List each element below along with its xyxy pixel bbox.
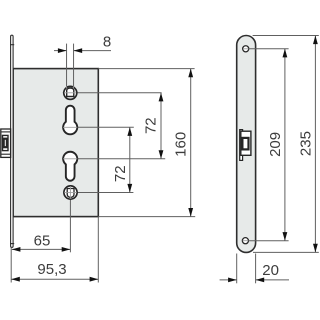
extension line plate bottom bbox=[253, 251, 319, 253]
dim 235 arrow bottom bbox=[313, 244, 318, 253]
center line follower bbox=[63, 92, 162, 94]
dim 235 arrow top bbox=[313, 36, 318, 45]
faceplate strip tick top bbox=[10, 44, 14, 46]
svg-text:65: 65 bbox=[34, 233, 51, 250]
dim 8 line right segment bbox=[74, 50, 111, 52]
dim 72 lower arrow top bbox=[127, 127, 132, 136]
extension line 20 left bbox=[236, 254, 238, 284]
dim 8 arrow right bbox=[74, 48, 83, 53]
dim 65 arrow right bbox=[62, 247, 71, 252]
dim 8 arrow left bbox=[58, 48, 67, 53]
faceplate edge-on strip bbox=[11, 35, 14, 247]
dim 95,3 line bbox=[11, 278, 98, 280]
follower square hole bbox=[67, 88, 74, 96]
dim 72 lower arrow bottom bbox=[127, 184, 132, 193]
dim 72 upper arrow bottom bbox=[159, 150, 164, 159]
center line bottom hub bbox=[64, 192, 133, 194]
extension line screw top bbox=[249, 48, 289, 50]
svg-text:72: 72 bbox=[142, 117, 159, 134]
extension line faceplate down bbox=[10, 248, 12, 283]
keyhole lower (euro profile, circle up) bbox=[63, 152, 77, 181]
dim 20 line left segment bbox=[220, 279, 237, 281]
striking plate (front view) bbox=[237, 36, 256, 253]
dim 95,3 arrow right bbox=[90, 277, 99, 282]
center line keyhole upper bbox=[62, 126, 134, 128]
faint chord follower horizontal bbox=[63, 86, 77, 199]
dim 72 upper arrow top bbox=[159, 93, 164, 102]
extension line screw bottom bbox=[249, 240, 289, 242]
extension line body right edge down bbox=[97, 217, 99, 283]
dim 235 line bbox=[314, 36, 316, 253]
dim 160 arrow bottom bbox=[188, 208, 193, 217]
dim 160 line bbox=[190, 69, 192, 217]
dim 65 line bbox=[12, 248, 71, 250]
svg-text:160: 160 bbox=[172, 132, 189, 157]
extension line: 8-dim right vertical bbox=[73, 44, 75, 89]
dim 20 arrow right bbox=[256, 278, 265, 283]
extension line plate top bbox=[253, 35, 319, 37]
extension line hub center down bbox=[69, 186, 71, 252]
svg-text:209: 209 bbox=[267, 132, 284, 157]
screw hole bottom bbox=[242, 238, 248, 244]
dim 209 arrow bottom bbox=[283, 232, 288, 241]
dim 72 upper line bbox=[160, 93, 162, 159]
dim 65 arrow left bbox=[12, 247, 21, 252]
faint chords through screw holes bbox=[243, 49, 249, 241]
svg-text:8: 8 bbox=[103, 33, 111, 50]
keyhole upper (euro profile, circle down) bbox=[63, 106, 77, 135]
dim 20 line right segment bbox=[256, 279, 289, 281]
svg-text:95,3: 95,3 bbox=[37, 261, 66, 278]
extension line 20 right bbox=[255, 254, 257, 284]
latch bolt (side view, protruding left) bbox=[1, 129, 11, 157]
dim 209 arrow top bbox=[283, 49, 288, 58]
extension line body bottom right bbox=[98, 216, 195, 218]
follower (spindle hub) circle bbox=[64, 86, 77, 99]
dim 160 arrow top bbox=[188, 69, 193, 78]
svg-text:235: 235 bbox=[297, 131, 314, 156]
faceplate strip tick bottom bbox=[10, 243, 14, 245]
dim 8 line left segment bbox=[54, 50, 67, 52]
screw hole top bbox=[243, 46, 249, 52]
dim 95,3 arrow left bbox=[11, 277, 20, 282]
lock body (side view) bbox=[13, 69, 98, 217]
bottom fixing hub circle bbox=[64, 186, 77, 199]
extension line body top right bbox=[98, 68, 194, 70]
bottom hub shield hole bbox=[67, 189, 74, 198]
dim 72 lower line bbox=[129, 127, 131, 192]
svg-text:72: 72 bbox=[112, 165, 129, 182]
extension line: 8-dim left vertical bbox=[66, 44, 68, 89]
dim 209 line bbox=[284, 49, 286, 241]
svg-text:20: 20 bbox=[262, 262, 279, 279]
latch opening (front view) bbox=[240, 130, 251, 161]
center line keyhole lower bbox=[62, 158, 165, 160]
dim 20 arrow left bbox=[228, 278, 237, 283]
